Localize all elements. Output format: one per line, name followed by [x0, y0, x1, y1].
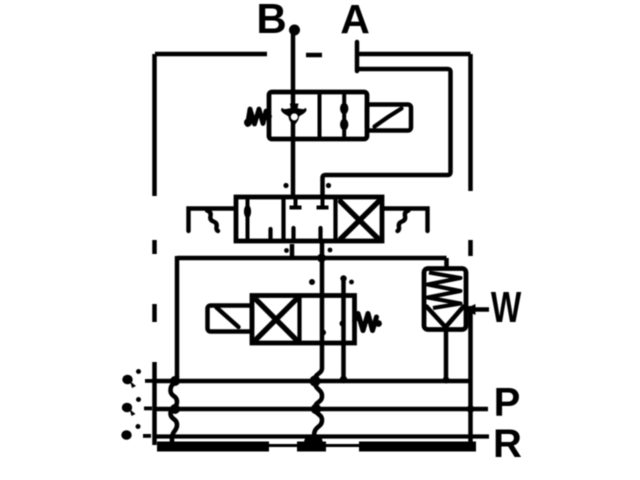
spring V2 left	[189, 209, 237, 232]
junction right boundary busP	[467, 405, 475, 413]
wire A stub	[355, 42, 360, 71]
directional valve V2 body	[236, 197, 382, 241]
tick dot left of gallery stub	[284, 248, 289, 253]
manifold bar segment 2	[297, 442, 326, 452]
junction dot second line top	[340, 275, 346, 281]
svg-text:W: W	[491, 283, 522, 332]
V2 port tick left	[283, 183, 288, 188]
serpentine wire center	[314, 382, 323, 438]
junction center busP	[311, 404, 321, 414]
V3 pilot diagonal	[217, 308, 239, 328]
wire B down through check valve to directional valve	[291, 33, 296, 199]
svg-text:B: B	[256, 0, 286, 42]
spring V3 right	[355, 314, 377, 331]
wire second spool line	[341, 279, 346, 379]
wire gallery to relief top	[444, 258, 449, 269]
manifold bar thin	[157, 444, 476, 447]
check valve V1 divider 2	[342, 92, 346, 139]
enclosure boundary top dashed	[155, 54, 322, 55]
check valve V1 divider 1	[318, 92, 322, 139]
bus wire P	[155, 407, 489, 412]
spring V2 right	[382, 209, 428, 232]
V2 center box blocked stub bottom-right	[318, 228, 322, 240]
tiny port mark a1	[122, 369, 153, 388]
V3 divider	[297, 296, 301, 344]
V2 divider 2	[333, 197, 337, 241]
tick dot near second line	[349, 280, 354, 285]
pilot diagonal of V1	[375, 109, 402, 127]
junction center bus1	[310, 376, 321, 387]
check valve poppet spade	[281, 104, 306, 127]
V2 divider 1	[281, 197, 285, 241]
junction relief bus1	[443, 377, 450, 384]
flow dot on spool line	[320, 330, 326, 336]
junction left bus1	[170, 376, 180, 386]
check valve assembly V1 body	[269, 92, 367, 139]
wire A to right boundary top	[355, 52, 471, 57]
node B junction dot	[289, 25, 300, 36]
spring squiggle V2 right	[398, 211, 409, 232]
relief valve spring	[428, 273, 461, 309]
wire A pipe right and down to valve	[323, 69, 451, 199]
spring blob V3	[375, 320, 382, 327]
spring of V1 left	[248, 109, 270, 125]
tick dot near spool line	[309, 279, 315, 285]
V2 left box flow line	[246, 199, 250, 239]
wire V2 bottom port to gallery	[290, 244, 295, 258]
pilot box of V1 right	[367, 105, 411, 131]
tiny port mark a2	[122, 397, 152, 416]
V3 crossed arrows	[257, 300, 296, 339]
V2 center box blocked port stub top-left	[290, 198, 302, 208]
bus wire upper	[155, 379, 471, 384]
svg-text:A: A	[340, 0, 370, 42]
shuttle valve V3 body	[252, 296, 355, 344]
V2 port tick right	[326, 183, 331, 188]
svg-text:R: R	[493, 422, 522, 466]
junction gallery x spool	[317, 254, 326, 263]
arrow W into relief	[464, 304, 476, 315]
V2 center box blocked port stub top-right	[317, 198, 329, 208]
wire W lead	[473, 307, 489, 312]
spring blob V1	[244, 119, 252, 127]
tiny port mark a3	[121, 424, 151, 440]
enclosure boundary left dashed	[152, 54, 157, 445]
manifold bar segment 1	[157, 442, 269, 452]
flow dot on second line	[340, 321, 346, 327]
junction left busP	[170, 404, 180, 414]
V3 pilot box left	[208, 306, 253, 332]
serpentine foot	[301, 437, 325, 451]
V2 right box crossed arrows	[341, 202, 379, 240]
V2 left box blocked stub	[268, 229, 272, 240]
V2 center box blocked stub bottom-left	[291, 228, 295, 240]
junction second line bus1	[340, 376, 348, 384]
serpentine wire left	[171, 376, 178, 442]
wire relief bottom down	[444, 330, 449, 380]
svg-text:P: P	[494, 381, 521, 425]
spring squiggle V2 left	[207, 211, 218, 232]
wire main spool line down	[315, 243, 322, 382]
relief valve seat funnel	[427, 307, 464, 327]
bus wire R	[155, 434, 490, 438]
V2 left box arrow lens	[244, 205, 251, 219]
relief valve RV body	[424, 269, 466, 330]
throttle bulged divider on V1	[340, 103, 348, 115]
enclosure boundary right dashed	[468, 54, 473, 449]
gallery wire across	[177, 256, 447, 261]
wire left gallery loop down	[175, 256, 180, 378]
tick dot right of gallery junction	[328, 248, 333, 253]
manifold bar segment 3	[359, 442, 476, 452]
